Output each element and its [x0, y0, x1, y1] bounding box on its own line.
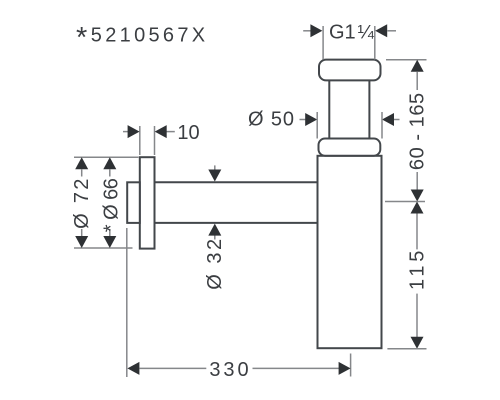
- dimension 10: right arrow: [155, 125, 175, 138]
- dimension D72/D66: shared top extension line: [74, 156, 139, 158]
- dimension 60-165: bottom arrow (down): [411, 190, 424, 202]
- dimension G1 1/4: left extension line: [322, 26, 324, 60]
- dimension D50: left arrow: [300, 113, 318, 126]
- svg-text:Ø 32: Ø 32: [204, 236, 226, 289]
- dimension 330: left arrow: [127, 362, 206, 375]
- svg-text:330: 330: [209, 359, 251, 381]
- dimension 60-165: top arrow: [411, 60, 424, 90]
- dimension D32: bottom arrow: [208, 224, 221, 240]
- wall flange plate (vertical rectangle, left): [140, 157, 155, 248]
- svg-text:G1: G1: [329, 21, 356, 43]
- horizontal outlet pipe (bottom line): [155, 222, 318, 224]
- svg-text:Ø 72: Ø 72: [71, 176, 93, 229]
- svg-text:10: 10: [177, 122, 199, 144]
- dimension D72: top arrow: [75, 157, 88, 176]
- dimension D32: top arrow: [208, 165, 221, 181]
- dimension 330: left extension line (wall face): [126, 228, 128, 377]
- middle extension line at pipe centre: [385, 201, 425, 203]
- svg-text:Ø 50: Ø 50: [248, 109, 295, 131]
- dimension D50: right arrow: [382, 113, 400, 126]
- trap body (tall rectangle): [318, 156, 382, 348]
- dimension 115: bottom extension line: [387, 348, 426, 350]
- dimension 10: right extension line: [154, 126, 156, 155]
- dimension 115: bottom arrow: [411, 337, 424, 349]
- wall-side pipe block behind flange: [127, 182, 140, 223]
- svg-text:¼: ¼: [358, 22, 375, 44]
- svg-text:115: 115: [406, 247, 428, 290]
- dimension 115: lower shaft: [416, 294, 418, 338]
- svg-text:* Ø 66: * Ø 66: [101, 178, 123, 232]
- dimension 10: left extension line: [139, 126, 141, 155]
- dimension 330: right extension line: [350, 354, 352, 377]
- svg-text:*: *: [76, 22, 87, 54]
- dimension D50: right extension line: [381, 112, 383, 139]
- top flange nut G1 1/4 (rounded): [319, 60, 381, 81]
- dimension 330: right arrow: [253, 362, 351, 375]
- dimension G1 1/4: right extension line: [374, 26, 376, 60]
- dimension 10: left arrow: [123, 125, 140, 138]
- dimension G1 1/4: left arrow: [303, 24, 322, 37]
- collar nut above body (rounded): [319, 139, 381, 156]
- dimension D66: top arrow: [103, 157, 116, 176]
- horizontal outlet pipe (top line): [155, 181, 318, 183]
- dimension 115: top arrow (up): [411, 202, 424, 250]
- dimension D50: left extension line: [316, 112, 318, 139]
- dimension D72: bottom arrow: [75, 229, 88, 248]
- dimension 60-165: top extension line: [386, 59, 427, 61]
- svg-text:5210567X: 5210567X: [91, 25, 209, 47]
- dimension 60-165: lower shaft: [416, 172, 418, 190]
- svg-text:60 - 165: 60 - 165: [407, 92, 429, 170]
- dimension G1 1/4: right arrow: [375, 24, 396, 37]
- riser pipe left line: [328, 80, 330, 139]
- dimension D72/D66: shared bottom extension line: [74, 247, 133, 249]
- riser pipe right line: [368, 80, 370, 139]
- dimension D66: bottom arrow: [103, 229, 116, 248]
